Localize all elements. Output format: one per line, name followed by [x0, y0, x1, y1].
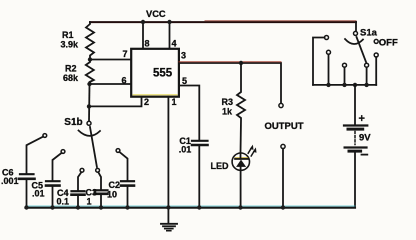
wire VCC rail	[90, 21, 356, 22]
junction dot S1a bus battery	[353, 83, 357, 87]
switch S1a rail drop	[355, 22, 357, 31]
switch S1a contact 2	[327, 50, 331, 85]
switch S1a contact 1	[313, 36, 329, 85]
resistor R2	[86, 60, 94, 85]
label C5 value	[32, 180, 45, 198]
junction dot pin8 rail	[141, 20, 145, 24]
label battery minus	[362, 154, 368, 156]
junction dot bus C2	[125, 205, 129, 209]
wire pin8 to VCC	[142, 22, 144, 49]
svg-text:4: 4	[172, 39, 177, 49]
label R3 value	[222, 97, 234, 117]
svg-text:LED: LED	[211, 161, 230, 171]
junction dot S1a bus 2	[326, 83, 330, 87]
label C3 value	[86, 188, 98, 207]
svg-text:1: 1	[87, 197, 92, 207]
svg-text:7: 7	[123, 49, 128, 59]
junction dot bus pin1	[166, 205, 170, 209]
label R1 value	[61, 30, 80, 49]
svg-text:1k: 1k	[222, 107, 233, 117]
wire pin2	[89, 97, 142, 107]
svg-text:S1b: S1b	[64, 117, 82, 128]
label R2 value	[63, 64, 79, 83]
svg-text:68k: 68k	[63, 73, 79, 83]
wire LED to bus	[240, 170, 242, 207]
junction dot bus LED	[238, 205, 242, 209]
junction dot bus C4	[76, 205, 80, 209]
switch S1b contact C6 + capacitor C6	[19, 134, 47, 208]
svg-text:OUTPUT: OUTPUT	[265, 121, 304, 132]
wire pin6	[90, 83, 132, 85]
svg-text:R3: R3	[222, 97, 234, 107]
terminal OFF contact	[374, 39, 378, 43]
svg-text:1: 1	[172, 97, 177, 107]
junction dot S1a bus 3	[342, 83, 346, 87]
svg-text:8: 8	[145, 39, 150, 49]
op-amp U1 555 timer box	[131, 49, 179, 97]
svg-text:.01: .01	[32, 189, 45, 199]
switch S1a arm	[357, 37, 367, 62]
svg-text:+: +	[359, 113, 365, 125]
ground symbol	[161, 208, 177, 231]
junction dot bus C1	[197, 205, 201, 209]
junction dot S1a bus 4	[364, 83, 368, 87]
switch S1b arm	[90, 127, 97, 167]
label C4 value	[57, 188, 70, 207]
junction dot bus C5	[50, 205, 54, 209]
junction dot pin4 rail	[167, 20, 171, 24]
junction dot pin3/R3	[239, 61, 243, 65]
wire left vertical to S1b	[88, 84, 91, 121]
switch S1a contact 5	[374, 53, 378, 85]
wire pin4 to VCC	[169, 22, 171, 49]
svg-text:3.9k: 3.9k	[61, 39, 80, 49]
switch S1b arc	[79, 131, 101, 136]
junction dot pin2 wire	[87, 104, 91, 108]
svg-text:0.1: 0.1	[57, 197, 70, 207]
svg-text:5: 5	[182, 76, 187, 86]
resistor R1	[86, 22, 94, 60]
terminal output lower	[281, 144, 285, 148]
switch S1a pivot	[354, 31, 358, 35]
svg-text:10: 10	[107, 190, 117, 200]
svg-text:9V: 9V	[359, 133, 371, 144]
switch S1a contact 4	[365, 63, 369, 85]
svg-text:2: 2	[144, 97, 149, 107]
wire pin7	[90, 59, 131, 61]
junction dot bus C3	[99, 205, 103, 209]
switch S1a contact 3	[343, 63, 347, 85]
svg-text:VCC: VCC	[146, 9, 166, 19]
wire pin5 to C1	[179, 86, 199, 140]
switch S1b contact C5 + capacitor C5	[46, 150, 65, 208]
label C2 value	[107, 180, 120, 200]
svg-text:.001: .001	[1, 176, 19, 186]
battery B1 9V	[344, 85, 367, 208]
wire ground bus	[26, 206, 356, 208]
wire S1a common bus	[313, 84, 376, 86]
switch S1b contact C3 + capacitor C3	[95, 168, 108, 207]
junction dot bus OUTPUT	[281, 205, 285, 209]
junction dot R1/R2 pin7	[88, 57, 92, 61]
wire pin1 to ground bus	[167, 97, 169, 208]
terminal output upper	[279, 103, 283, 107]
svg-text:C2: C2	[109, 180, 121, 190]
svg-text:3: 3	[181, 51, 186, 61]
svg-text:555: 555	[153, 68, 173, 80]
svg-text:OFF: OFF	[379, 38, 398, 49]
switch S1b contact C2 + capacitor C2	[116, 149, 134, 208]
capacitor C1	[192, 141, 208, 208]
svg-text:S1a: S1a	[360, 28, 378, 39]
wire pin3 output	[179, 62, 281, 104]
switch S1a arc	[345, 39, 363, 44]
resistor R3	[237, 63, 245, 153]
junction dot R2 pin6	[87, 82, 91, 86]
svg-text:.01: .01	[179, 145, 192, 155]
label C6 value	[1, 168, 19, 187]
label C1 value	[179, 136, 192, 155]
wire output terminal to bus	[282, 149, 284, 208]
switch S1b contact C4 + capacitor C4	[72, 168, 85, 207]
junction dot bus C6	[24, 205, 28, 209]
switch S1b pivot	[87, 121, 91, 125]
svg-text:6: 6	[122, 76, 127, 86]
LED D1	[232, 145, 256, 171]
